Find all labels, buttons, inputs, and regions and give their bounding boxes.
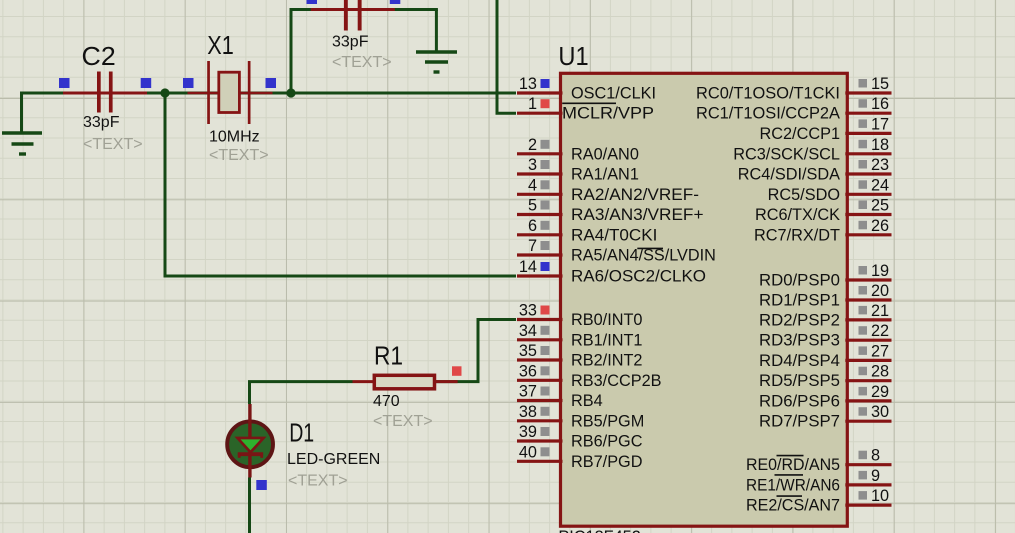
svg-text:RD6/PSP6: RD6/PSP6 bbox=[759, 392, 840, 410]
pin 8 stub (right) bbox=[845, 463, 891, 466]
capacitor C1 (top, partially cut) bbox=[311, 0, 395, 31]
svg-text:17: 17 bbox=[871, 115, 889, 133]
svg-text:RD1/PSP1: RD1/PSP1 bbox=[759, 292, 840, 310]
D1 cathode terminal marker bbox=[256, 480, 267, 490]
svg-text:RA2/AN2/VREF-: RA2/AN2/VREF- bbox=[571, 186, 699, 204]
pin 35 state marker bbox=[541, 346, 550, 355]
X1 right terminal marker bbox=[266, 78, 277, 88]
pin 38 stub (left) bbox=[517, 419, 563, 422]
svg-text:5: 5 bbox=[528, 197, 537, 215]
pin 23 stub (right) bbox=[845, 172, 891, 175]
pin 24 state marker bbox=[859, 180, 868, 189]
svg-text:RC3/SCK/SCL: RC3/SCK/SCL bbox=[733, 145, 840, 163]
pin 29 stub (right) bbox=[845, 399, 891, 402]
svg-text:RC7/RX/DT: RC7/RX/DT bbox=[754, 226, 840, 244]
svg-text:RC5/SDO: RC5/SDO bbox=[768, 186, 840, 204]
wire: left ground drop bbox=[20, 92, 23, 134]
svg-text:R1: R1 bbox=[374, 343, 403, 371]
svg-text:U1: U1 bbox=[558, 43, 588, 71]
svg-text:LED-GREEN: LED-GREEN bbox=[287, 451, 380, 468]
svg-text:RA1/AN1: RA1/AN1 bbox=[571, 166, 639, 184]
svg-text:<TEXT>: <TEXT> bbox=[83, 136, 143, 153]
svg-text:RA3/AN3/VREF+: RA3/AN3/VREF+ bbox=[571, 206, 704, 224]
pin 39 stub (left) bbox=[517, 439, 563, 442]
pin 7 stub (left) bbox=[517, 253, 563, 256]
X1 left terminal marker bbox=[183, 78, 194, 88]
wire: top capacitor left lead net bbox=[290, 8, 313, 11]
svg-text:19: 19 bbox=[871, 262, 889, 280]
pin 6 stub (left) bbox=[517, 233, 563, 236]
svg-text:29: 29 bbox=[871, 383, 889, 401]
svg-text:33pF: 33pF bbox=[332, 33, 369, 50]
pin 10 stub (right) bbox=[845, 504, 891, 507]
pin 23 state marker bbox=[859, 160, 868, 169]
pin 28 state marker bbox=[859, 367, 868, 376]
pin 30 state marker bbox=[859, 407, 868, 416]
svg-text:16: 16 bbox=[871, 95, 889, 113]
pin 28 stub (right) bbox=[845, 379, 891, 382]
pin 1 stub (left) bbox=[517, 112, 563, 115]
svg-text:35: 35 bbox=[519, 342, 537, 360]
svg-text:3: 3 bbox=[528, 156, 537, 174]
pin 13 stub (left) bbox=[517, 91, 563, 94]
svg-text:RB4: RB4 bbox=[571, 392, 603, 410]
svg-text:1: 1 bbox=[528, 95, 537, 113]
svg-text:<TEXT>: <TEXT> bbox=[209, 147, 269, 164]
wire: main horizontal net OSC1 bbox=[22, 92, 517, 95]
resistor R1 bbox=[353, 375, 458, 389]
C2 right terminal marker bbox=[141, 78, 152, 88]
pin 6 state marker bbox=[541, 221, 550, 230]
svg-text:D1: D1 bbox=[289, 420, 314, 448]
pin 18 state marker bbox=[859, 140, 868, 149]
C2 left terminal marker bbox=[59, 78, 70, 88]
svg-text:34: 34 bbox=[519, 322, 537, 340]
svg-text:40: 40 bbox=[519, 443, 537, 461]
pin 39 state marker bbox=[541, 427, 550, 436]
pin 40 stub (left) bbox=[517, 460, 563, 463]
svg-text:27: 27 bbox=[871, 342, 889, 360]
pin 15 stub (right) bbox=[845, 91, 891, 94]
pin 29 state marker bbox=[859, 387, 868, 396]
pin 7 state marker bbox=[541, 241, 550, 250]
pin 16 stub (right) bbox=[845, 112, 891, 115]
pin 24 stub (right) bbox=[845, 193, 891, 196]
svg-text:24: 24 bbox=[871, 176, 889, 194]
pin 30 stub (right) bbox=[845, 420, 891, 423]
op-amp / MCU U1 PIC18F452 body bbox=[561, 73, 848, 526]
svg-text:X1: X1 bbox=[207, 32, 234, 60]
pin 19 state marker bbox=[859, 266, 868, 275]
pin 5 stub (left) bbox=[517, 213, 563, 216]
svg-text:39: 39 bbox=[519, 423, 537, 441]
svg-text:RA4/T0CKI: RA4/T0CKI bbox=[571, 226, 657, 244]
pin 38 state marker bbox=[541, 407, 550, 416]
pin 13 state marker bbox=[541, 79, 550, 88]
R1 right terminal marker (red) bbox=[452, 366, 462, 376]
pin 8 state marker bbox=[859, 451, 868, 460]
svg-text:RA6/OSC2/CLKO: RA6/OSC2/CLKO bbox=[571, 268, 706, 286]
svg-text:23: 23 bbox=[871, 156, 889, 174]
pin 27 stub (right) bbox=[845, 359, 891, 362]
svg-text:RB2/INT2: RB2/INT2 bbox=[571, 352, 642, 370]
pin 2 stub (left) bbox=[517, 152, 563, 155]
ground GND right bbox=[416, 52, 457, 72]
C1 left terminal marker bbox=[307, 0, 318, 4]
pin 37 stub (left) bbox=[517, 399, 563, 402]
wire: R1 left to LED anode bbox=[250, 382, 353, 404]
svg-text:15: 15 bbox=[871, 75, 889, 93]
pin 9 state marker bbox=[859, 471, 868, 480]
pin 34 state marker bbox=[541, 326, 550, 335]
pin 22 stub (right) bbox=[845, 339, 891, 342]
svg-text:25: 25 bbox=[871, 197, 889, 215]
svg-text:RC0/T1OSO/T1CKI: RC0/T1OSO/T1CKI bbox=[696, 85, 840, 103]
wire: MCLR pin 1 from top bbox=[497, 0, 516, 113]
pin 36 stub (left) bbox=[517, 379, 563, 382]
svg-text:RC4/SDI/SDA: RC4/SDI/SDA bbox=[738, 166, 840, 184]
crystal X1 bbox=[188, 61, 273, 124]
svg-text:4: 4 bbox=[528, 176, 537, 194]
svg-text:<TEXT>: <TEXT> bbox=[373, 413, 433, 430]
node B junction dot bbox=[286, 88, 295, 97]
pin 17 state marker bbox=[859, 119, 868, 128]
pin 26 stub (right) bbox=[845, 233, 891, 236]
node A junction dot bbox=[160, 88, 169, 97]
pin 2 state marker bbox=[541, 140, 550, 149]
svg-text:22: 22 bbox=[871, 322, 889, 340]
pin 16 state marker bbox=[859, 99, 868, 108]
svg-text:30: 30 bbox=[871, 403, 889, 421]
ground GND left bbox=[2, 133, 42, 154]
pin 20 state marker bbox=[859, 286, 868, 295]
pin 33 stub (left) bbox=[517, 318, 563, 321]
C1 right terminal marker bbox=[390, 0, 401, 4]
wire: R1 right to RB0 pin 33 bbox=[436, 320, 516, 382]
svg-text:RD4/PSP4: RD4/PSP4 bbox=[759, 352, 840, 370]
pin 27 state marker bbox=[859, 346, 868, 355]
svg-text:RB0/INT0: RB0/INT0 bbox=[571, 311, 642, 329]
svg-text:RB1/INT1: RB1/INT1 bbox=[571, 331, 642, 349]
svg-text:RC1/T1OSI/CCP2A: RC1/T1OSI/CCP2A bbox=[696, 105, 840, 123]
svg-text:13: 13 bbox=[519, 75, 537, 93]
svg-text:RC2/CCP1: RC2/CCP1 bbox=[759, 125, 840, 143]
pin 35 stub (left) bbox=[517, 358, 563, 361]
svg-text:7: 7 bbox=[528, 237, 537, 255]
capacitor C2 bbox=[63, 72, 147, 113]
svg-text:PIC18F452: PIC18F452 bbox=[558, 528, 640, 533]
svg-text:<TEXT>: <TEXT> bbox=[288, 473, 348, 490]
svg-text:18: 18 bbox=[871, 136, 889, 154]
svg-text:RC6/TX/CK: RC6/TX/CK bbox=[755, 206, 840, 224]
svg-text:RB6/PGC: RB6/PGC bbox=[571, 433, 643, 451]
svg-text:RD5/PSP5: RD5/PSP5 bbox=[759, 372, 840, 390]
pin 34 stub (left) bbox=[517, 338, 563, 341]
svg-text:10MHz: 10MHz bbox=[209, 129, 260, 146]
svg-text:RD3/PSP3: RD3/PSP3 bbox=[759, 332, 840, 350]
pin 37 state marker bbox=[541, 387, 550, 396]
svg-text:<TEXT>: <TEXT> bbox=[332, 54, 392, 71]
pin 33 state marker bbox=[541, 306, 550, 315]
svg-text:470: 470 bbox=[373, 393, 400, 410]
svg-text:38: 38 bbox=[519, 403, 537, 421]
svg-text:14: 14 bbox=[519, 258, 537, 276]
pin 21 stub (right) bbox=[845, 318, 891, 321]
svg-text:10: 10 bbox=[871, 487, 889, 505]
wire: top capacitor right to ground bbox=[394, 8, 438, 11]
pin 21 state marker bbox=[859, 306, 868, 315]
svg-text:RB7/PGD: RB7/PGD bbox=[571, 453, 642, 471]
pin 9 stub (right) bbox=[845, 483, 891, 486]
pin 10 state marker bbox=[859, 491, 868, 500]
pin 14 state marker bbox=[541, 262, 550, 271]
svg-text:MCLR/VPP: MCLR/VPP bbox=[562, 105, 654, 123]
pin 18 stub (right) bbox=[845, 152, 891, 155]
svg-text:C2: C2 bbox=[82, 43, 116, 71]
pin 15 state marker bbox=[859, 79, 868, 88]
pin 25 stub (right) bbox=[845, 213, 891, 216]
LED D1 bbox=[227, 404, 273, 478]
svg-text:RA0/AN0: RA0/AN0 bbox=[571, 145, 639, 163]
pin 22 state marker bbox=[859, 326, 868, 335]
svg-text:OSC1/CLKI: OSC1/CLKI bbox=[571, 85, 656, 103]
svg-text:36: 36 bbox=[519, 362, 537, 380]
svg-text:26: 26 bbox=[871, 217, 889, 235]
svg-text:6: 6 bbox=[528, 217, 537, 235]
wire: junction A to RA6/OSC2 pin 14 bbox=[165, 93, 516, 276]
svg-text:8: 8 bbox=[871, 447, 880, 465]
svg-text:21: 21 bbox=[871, 302, 889, 320]
wire: junction B up to top capacitor bbox=[290, 8, 293, 93]
svg-text:9: 9 bbox=[871, 467, 880, 485]
svg-text:RD7/PSP7: RD7/PSP7 bbox=[759, 413, 840, 431]
svg-text:RD2/PSP2: RD2/PSP2 bbox=[759, 311, 840, 329]
pin 14 stub (left) bbox=[517, 274, 563, 277]
wire: LED cathode down bbox=[248, 478, 251, 533]
svg-text:RD0/PSP0: RD0/PSP0 bbox=[759, 272, 840, 290]
svg-text:33: 33 bbox=[519, 302, 537, 320]
pin 36 state marker bbox=[541, 366, 550, 375]
svg-text:20: 20 bbox=[871, 282, 889, 300]
svg-text:RE0/RD/AN5: RE0/RD/AN5 bbox=[746, 456, 840, 474]
pin 19 stub (right) bbox=[845, 278, 891, 281]
svg-text:RB5/PGM: RB5/PGM bbox=[571, 412, 644, 430]
svg-text:37: 37 bbox=[519, 383, 537, 401]
pin 20 stub (right) bbox=[845, 298, 891, 301]
svg-text:RE2/CS/AN7: RE2/CS/AN7 bbox=[746, 497, 840, 515]
pin 17 stub (right) bbox=[845, 132, 891, 135]
pin 26 state marker bbox=[859, 221, 868, 230]
pin 40 state marker bbox=[541, 447, 550, 456]
wire: right ground drop bbox=[435, 10, 438, 53]
pin 25 state marker bbox=[859, 201, 868, 210]
svg-text:28: 28 bbox=[871, 363, 889, 381]
pin 3 state marker bbox=[541, 160, 550, 169]
pin 3 stub (left) bbox=[517, 172, 563, 175]
svg-text:RB3/CCP2B: RB3/CCP2B bbox=[571, 372, 662, 390]
svg-text:2: 2 bbox=[528, 136, 537, 154]
pin 1 state marker bbox=[541, 99, 550, 108]
pin 4 stub (left) bbox=[517, 193, 563, 196]
svg-text:33pF: 33pF bbox=[83, 114, 120, 131]
pin 4 state marker bbox=[541, 180, 550, 189]
pin 5 state marker bbox=[541, 201, 550, 210]
svg-text:RE1/WR/AN6: RE1/WR/AN6 bbox=[746, 476, 840, 494]
